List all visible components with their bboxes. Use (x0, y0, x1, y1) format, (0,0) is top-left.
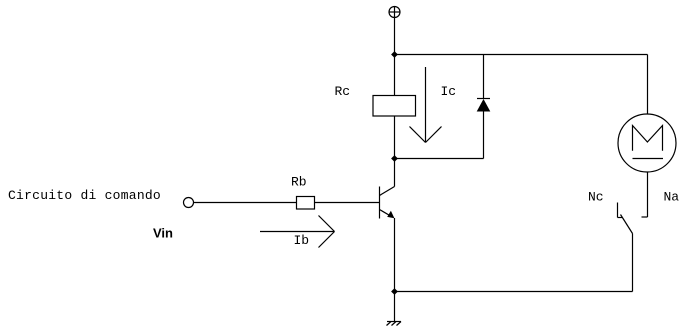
resistor Rb (297, 197, 315, 210)
svg-text:Ib: Ib (294, 233, 310, 248)
svg-text:Circuito di comando: Circuito di comando (8, 188, 161, 203)
wire top rail to diode (483, 55, 485, 99)
motor M1 (618, 114, 676, 172)
switch contact Nc (618, 203, 623, 218)
switch blade (621, 215, 633, 292)
svg-text:Nc: Nc (588, 190, 604, 205)
current arrow Ib (260, 216, 335, 248)
svg-text:Rb: Rb (291, 175, 307, 190)
wire bottom rail (395, 291, 633, 293)
wire supply to node A (394, 18, 396, 55)
ground (387, 322, 402, 326)
wire emitter down (394, 218, 396, 292)
node C junction (391, 288, 398, 295)
input terminal (184, 198, 194, 208)
current arrow Ic (410, 67, 442, 143)
wire motor to Na contact (642, 172, 648, 217)
node B junction (391, 155, 398, 162)
wire relay coil to node B (394, 116, 396, 159)
wire node B to collector (394, 159, 396, 187)
transistor Q1 (380, 187, 395, 219)
relay coil Rc (373, 96, 416, 117)
wire top rail (395, 54, 648, 56)
node A junction (391, 51, 398, 58)
power supply positive terminal (389, 7, 400, 18)
wire node A to relay coil (394, 55, 396, 96)
svg-text:Na: Na (664, 190, 680, 205)
svg-text:Rc: Rc (335, 84, 351, 99)
diode D1 (477, 99, 491, 159)
wire resistor to base (315, 202, 380, 204)
wire input to resistor (194, 202, 297, 204)
svg-text:Ic: Ic (441, 84, 457, 99)
wire node C to ground (394, 292, 396, 322)
wire top rail down to motor (647, 55, 649, 115)
wire node B to diode bottom (395, 158, 484, 160)
svg-text:Vin: Vin (153, 226, 173, 241)
